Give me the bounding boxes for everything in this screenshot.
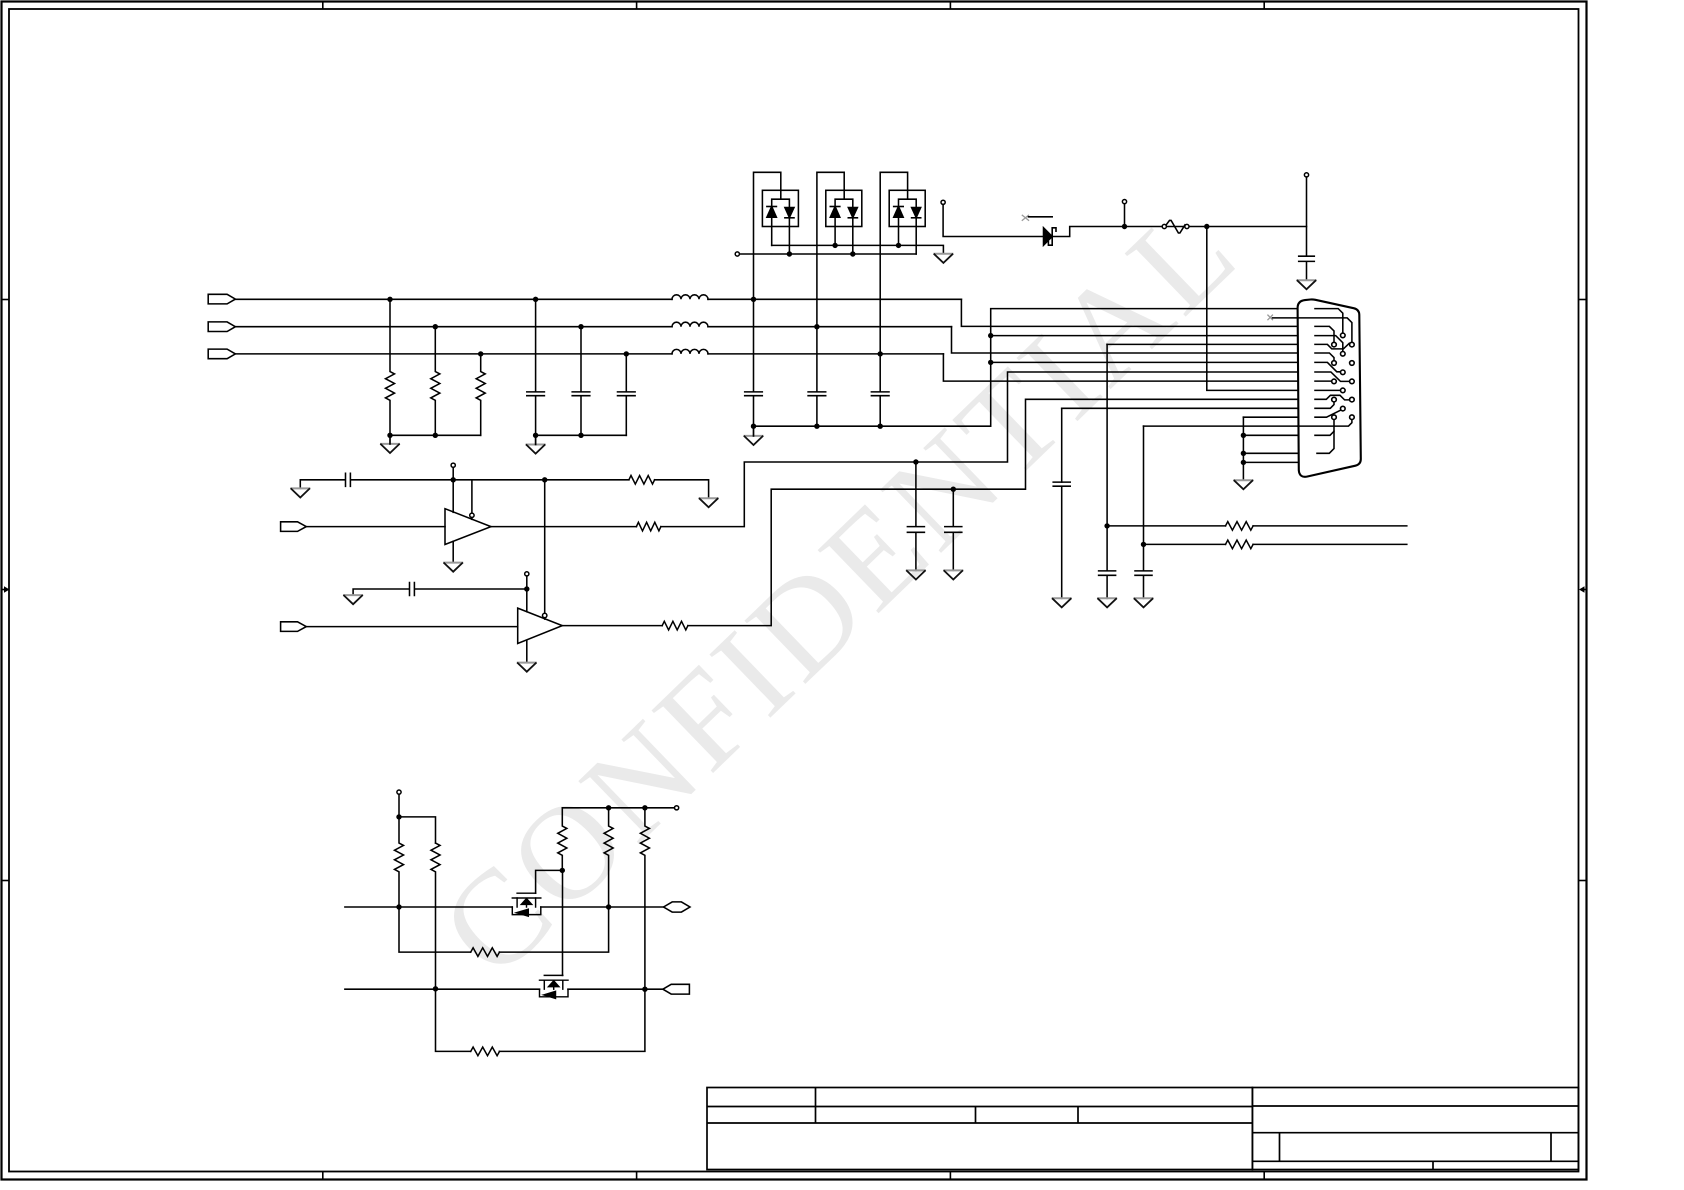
- op-amp U1: [445, 509, 491, 545]
- resistor R12 (gate line): [471, 948, 500, 957]
- junction at 898.5,245.4: [896, 243, 901, 248]
- wire stub above diode: [1029, 216, 1053, 218]
- junction at 816.9,426.2: [814, 424, 819, 429]
- resistor R8 (node A): [1226, 522, 1254, 531]
- junction at 1143.5,544.4: [1141, 542, 1146, 547]
- junction at 453.2,479.8: [451, 477, 456, 482]
- wire node B riser: [1061, 408, 1063, 482]
- capacitor C8 (U1 bias): [300, 473, 453, 488]
- junction at 581,435.3: [578, 433, 583, 438]
- pin circle J-U2: [525, 572, 529, 576]
- connector lead e12: [1315, 402, 1334, 408]
- wire D3 signal riser: [880, 172, 907, 354]
- diode D3a: [894, 206, 904, 208]
- wire node B to connector line 12: [1062, 407, 1298, 409]
- ground G13 (node B cap): [1053, 598, 1071, 607]
- wire U2 below stem: [526, 640, 528, 662]
- port P-B (input port line 3): [208, 349, 235, 359]
- port P-R (input port line 1): [208, 294, 235, 304]
- inductor L3: [672, 349, 708, 353]
- title block left box: [707, 1088, 1252, 1170]
- junction at 1206.8,226.5: [1204, 224, 1209, 229]
- wire pin C to diode: [943, 204, 1043, 236]
- wire U2 bias drop: [526, 576, 528, 612]
- inductor L1: [672, 295, 708, 300]
- junction at 435.3,326.7: [433, 324, 438, 329]
- no-connect X mark 2: [1268, 315, 1273, 320]
- border zone ticks left: [2, 300, 10, 881]
- capacitor C3 (line3): [618, 354, 636, 435]
- wire resistor ground bus: [390, 434, 481, 436]
- connector pin circles: [1332, 333, 1355, 419]
- connector lead e13: [1315, 410, 1341, 417]
- wire signal line 2 jog down: [952, 327, 1298, 353]
- junction at 1243.4,435.3: [1241, 433, 1246, 438]
- diode D1b: [785, 208, 794, 218]
- port P-OUT2 (tag): [663, 984, 690, 994]
- connector lead e2: [1298, 318, 1352, 342]
- ground G14 (node A cap): [1098, 598, 1116, 607]
- ground G5 (TVS cap bus): [745, 436, 763, 445]
- U1 pin bubble: [471, 480, 473, 513]
- pin circle J-U1: [451, 463, 455, 467]
- capacitor C13 (node B): [1053, 482, 1070, 598]
- port P-IN1: [281, 522, 307, 532]
- junction at 1124.5,226.5: [1122, 224, 1127, 229]
- junction at 544.7,479.8: [542, 477, 547, 482]
- junction at 562.3,870.4: [560, 868, 565, 873]
- junction at 581,326.7: [578, 324, 583, 329]
- connector lead e15: [1315, 420, 1334, 436]
- ground G7 (U1 fb resistor): [700, 498, 718, 507]
- junction at 399,907: [396, 904, 401, 909]
- ground G6 (U1 bias cap): [291, 488, 309, 497]
- border mid arrow left: [2, 586, 10, 592]
- title block right box: [1252, 1088, 1578, 1170]
- resistor R5 (U1 fb to gnd): [629, 476, 655, 485]
- junction at 644.9,989.2: [642, 987, 647, 992]
- pin circle J-C (top): [941, 200, 945, 204]
- TVS package D2: [817, 172, 862, 326]
- resistor R2 (line2 to gnd bus): [431, 327, 440, 436]
- junction at 953.3,489.2: [951, 487, 956, 492]
- junction at 1243.4,453.3: [1241, 451, 1246, 456]
- wire node A to connector line 5: [1107, 343, 1298, 345]
- ground G15 (node C cap): [1135, 598, 1153, 607]
- wire bottom line 2: [345, 988, 663, 990]
- resistor R7 (U2 output): [662, 621, 688, 630]
- wire Q2 gate riser: [562, 870, 564, 975]
- wire U1 bias drop: [452, 467, 454, 512]
- wire U1 top node line: [453, 480, 708, 498]
- wire U1 input: [306, 526, 445, 528]
- pin circle J-D: [1122, 200, 1126, 204]
- diode D2b: [848, 208, 857, 218]
- wire U1 output: [491, 372, 1298, 527]
- ground G3 (resistor bus): [381, 444, 399, 453]
- capacitor C4 (TVS line1): [745, 299, 763, 426]
- junction at 990.7,335.6: [988, 333, 993, 338]
- resistor R10: [395, 817, 404, 907]
- capacitor C14 (node C): [1135, 544, 1152, 598]
- junction at 753.5,426.2: [751, 424, 756, 429]
- wire signal line 1: [235, 298, 961, 300]
- wire Q1 gate: [536, 870, 563, 893]
- resistor R16 (rail to line2): [640, 808, 649, 989]
- capacitor C9 (U2 bias): [353, 583, 527, 596]
- wire pin D lead: [1124, 204, 1126, 227]
- resistor R11: [431, 843, 440, 989]
- junction at 1243.4,462.4: [1241, 460, 1246, 465]
- wire TVS cap bus to gnd riser: [754, 309, 1298, 427]
- wire gnd tap line 7: [991, 361, 1298, 363]
- TVS D1 package box: [762, 190, 798, 226]
- wire signal line 2: [235, 326, 951, 328]
- wire gnd bus 2 tap 16: [1243, 452, 1297, 454]
- connector lead e5: [1315, 343, 1349, 349]
- ground G9 (U2 bias cap): [344, 595, 362, 604]
- junction at 480.7,353.9: [478, 351, 483, 356]
- watermark CONFIDENTIAL: [413, 173, 1266, 1004]
- junction at 626.3,353.9: [624, 351, 629, 356]
- connector lead e4: [1315, 336, 1343, 352]
- wire signal line 3: [235, 353, 943, 355]
- junction at 852.8,254: [850, 251, 855, 256]
- junction at 915.9,462: [913, 459, 918, 464]
- ground G8 (U1 below): [444, 563, 462, 572]
- border zone ticks top: [323, 2, 1264, 10]
- junction at 880.2,353.9: [878, 351, 883, 356]
- wire gnd bus 2 tap 15: [1243, 434, 1297, 436]
- wire gnd bus 2 tap 17: [1243, 461, 1297, 463]
- wire gate line: [399, 907, 609, 952]
- wire capacitor ground bus: [536, 434, 627, 436]
- connector J1 shell: [1298, 299, 1361, 476]
- wire gnd bus 2: [1242, 417, 1244, 480]
- capacitor C10 (U1 route): [907, 462, 924, 570]
- junction at 535.6,435.3: [533, 433, 538, 438]
- junction at 435.5,988.8: [433, 986, 438, 991]
- wire TVS anode bus to ground: [772, 245, 944, 253]
- resistor R1 (line1 to gnd bus): [386, 299, 395, 435]
- diode D2a: [830, 206, 840, 208]
- wire node A riser: [1106, 344, 1108, 526]
- TVS D2 common bracket: [835, 199, 853, 207]
- border mid arrow right: [1579, 586, 1587, 592]
- wire signal line 1 jog down: [961, 299, 1297, 326]
- connector lead e14: [1298, 420, 1352, 427]
- junction at 816.9,326.7: [814, 324, 819, 329]
- junction at 399,816.9: [396, 814, 401, 819]
- capacitor C1 (line1): [527, 299, 545, 435]
- wire zener node riser to connector line 10: [1207, 227, 1298, 391]
- wire nc stub line 2: [1273, 317, 1298, 319]
- diode D3b: [912, 208, 921, 218]
- wire node C to connector line 14: [1144, 425, 1298, 427]
- pin circle J-TVS: [735, 252, 739, 256]
- U2 pin bubble: [543, 613, 547, 617]
- port P-IN2: [281, 622, 307, 632]
- ground G12 (C11): [944, 570, 962, 579]
- junction at 535.6,299.3: [533, 297, 538, 302]
- inductor L2: [672, 322, 708, 327]
- wire U2 output: [562, 399, 1297, 625]
- ground G16 (gnd bus 2): [1234, 480, 1252, 489]
- junction at 1107.1,525.9: [1104, 523, 1109, 528]
- border zone ticks bottom: [323, 1172, 1264, 1180]
- connector lead e3: [1315, 326, 1334, 342]
- wire diode to node: [1052, 227, 1306, 237]
- TVS D3 common bracket: [899, 199, 917, 207]
- wire pin F branch: [399, 817, 436, 843]
- junction at 753.5,299.3: [751, 297, 756, 302]
- transistor Q2: [540, 975, 569, 998]
- junction at 390,299.3: [387, 297, 392, 302]
- connector lead e10: [1315, 389, 1341, 391]
- resistor R4 (inline top): [1166, 220, 1185, 233]
- pin circle J-F (bottom left): [397, 790, 401, 794]
- junction at 835.1,245.4: [832, 243, 837, 248]
- main circuit strokes: [208, 172, 1407, 1055]
- pin circle J-E: [1304, 173, 1308, 177]
- pin circle J-G (rail right): [675, 806, 679, 810]
- diode D1a: [767, 206, 777, 208]
- junction at 789.4,254: [787, 251, 792, 256]
- wire gnd tap line 4: [991, 335, 1298, 337]
- ground G1 (TVS bus): [934, 254, 952, 263]
- resistor R15 (rail to line1): [604, 808, 613, 907]
- capacitor C12 (node A): [1099, 526, 1116, 598]
- wire node C to resistor: [1144, 543, 1407, 545]
- ground G4 (cap bus): [527, 445, 545, 454]
- no-connect X mark 1: [1022, 215, 1028, 220]
- wire gnd bus 2 top to connector line 13: [1243, 416, 1297, 418]
- connector lead e7: [1315, 362, 1340, 371]
- wire D2 signal riser: [817, 172, 844, 326]
- junction at 390,435.3: [387, 433, 392, 438]
- junction at 990.7,362.4: [988, 360, 993, 365]
- junction at 526.8,589: [524, 586, 529, 591]
- ground G10 (U2 below): [518, 663, 536, 672]
- connector lead e9: [1315, 380, 1332, 382]
- capacitor C7 (top right): [1299, 177, 1315, 280]
- wire node A to resistor: [1107, 525, 1407, 527]
- wire signal line 3 jog down: [943, 354, 1297, 381]
- wire TVS cathode bus to pin: [739, 253, 916, 255]
- TVS package D3: [880, 172, 925, 354]
- junction at 880.2,426.2: [878, 424, 883, 429]
- wire U1 to U2 link: [544, 480, 546, 614]
- resistor R14 (rail to gate node): [558, 808, 567, 871]
- ground G11 (C10): [907, 570, 925, 579]
- resistor R13 (bottom loop): [471, 1047, 500, 1056]
- ground symbols: [291, 254, 1315, 672]
- capacitor C6 (TVS line3): [871, 354, 889, 426]
- ground G2 (top right cap): [1298, 280, 1316, 289]
- resistor R3 (line3 to gnd bus): [476, 354, 485, 435]
- capacitor C2 (line2): [572, 327, 590, 436]
- resistor R9 (node C): [1226, 540, 1254, 549]
- wire bottom line 1: [345, 906, 664, 908]
- wire node C riser: [1143, 426, 1145, 544]
- port P-G (input port line 2): [208, 322, 235, 332]
- diode D4 schottky: [1044, 228, 1053, 245]
- connector lead e16: [1317, 431, 1334, 453]
- connector lead e8: [1315, 372, 1350, 381]
- capacitor C5 (TVS line2): [808, 327, 826, 427]
- TVS package D1: [754, 172, 799, 299]
- TVS D1 common bracket: [772, 199, 790, 207]
- op-amp U2: [518, 608, 563, 643]
- resistor R6 (U1 output): [636, 522, 660, 531]
- junction at 435.3,435.3: [433, 433, 438, 438]
- wire bottom loop: [436, 989, 645, 1052]
- port P-OUT1 (hexagon): [664, 902, 691, 912]
- junction at 644.9,807.8: [642, 805, 647, 810]
- wire U2 input: [306, 626, 517, 628]
- connector lead e1: [1315, 309, 1343, 334]
- TVS D3 package box: [889, 190, 925, 226]
- junction at 608.6,807.8: [606, 805, 611, 810]
- TVS D2 package box: [826, 190, 862, 226]
- wire pin F lead: [398, 794, 400, 817]
- wire D1 signal riser: [754, 172, 781, 299]
- wire pullup rail: [562, 807, 674, 809]
- connector lead e6: [1315, 353, 1334, 361]
- border zone ticks right: [1579, 300, 1588, 881]
- transistor Q1: [512, 893, 541, 916]
- wire U1 below stem: [452, 541, 454, 562]
- connector lead e11: [1315, 395, 1350, 400]
- capacitor C11 (U2 route): [945, 489, 962, 570]
- junction at 608.6,907: [606, 904, 611, 909]
